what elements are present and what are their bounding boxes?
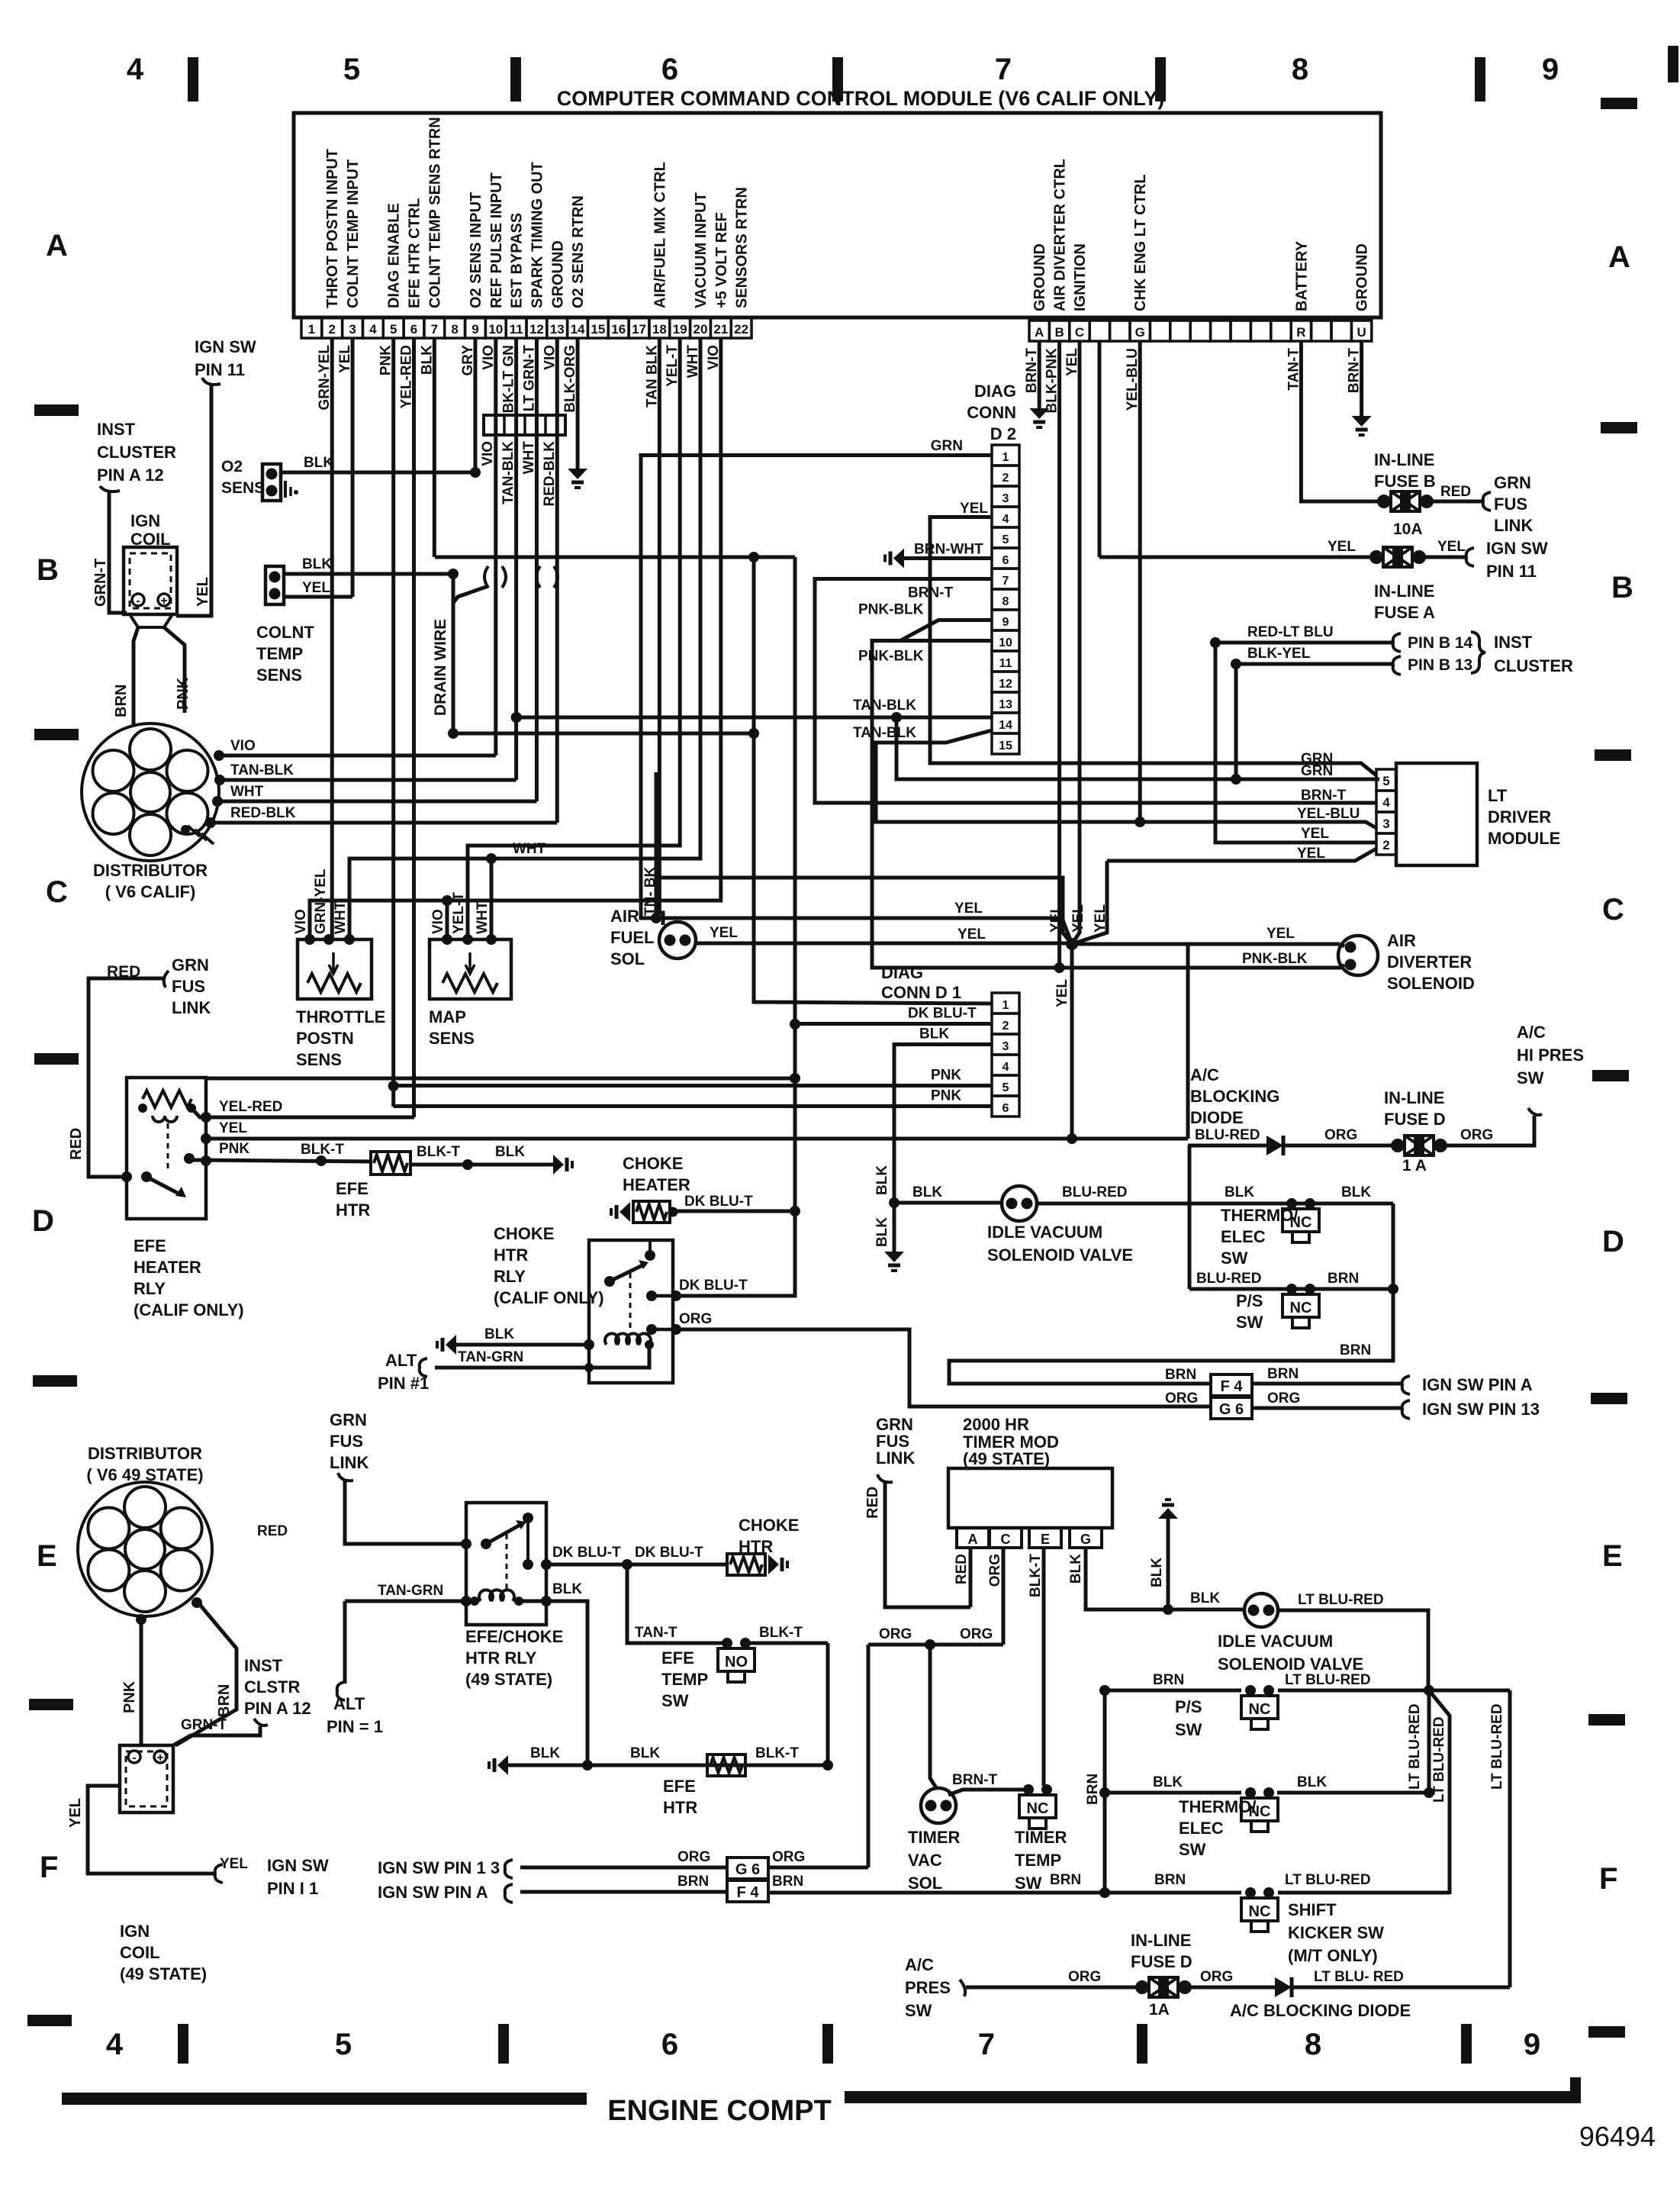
G6 box bottom: [727, 1858, 768, 1879]
wire pin2 GRN-YEL: [330, 338, 334, 939]
wire g6 bottom row: [505, 1860, 727, 1878]
wire thermo2 right: [1277, 1787, 1434, 1798]
svg-text:EFE: EFE: [661, 1648, 694, 1667]
svg-text:DIODE: DIODE: [1190, 1108, 1244, 1127]
svg-text:LT BLU-RED: LT BLU-RED: [1489, 1703, 1505, 1790]
wire f4 bottom row: [505, 1884, 727, 1903]
svg-text:DK BLU-T: DK BLU-T: [552, 1545, 621, 1561]
svg-text:BRN: BRN: [216, 1684, 233, 1717]
label IN-LINE FUSE D bottom: [1131, 1931, 1192, 1971]
svg-text:GROUND: GROUND: [1354, 243, 1371, 311]
svg-text:(49 STATE): (49 STATE): [963, 1449, 1050, 1468]
svg-text:DISTRIBUTOR: DISTRIBUTOR: [93, 861, 208, 880]
wire g6 right: [1252, 1400, 1410, 1419]
svg-text:C: C: [1001, 1532, 1011, 1547]
svg-text:6: 6: [1003, 554, 1009, 567]
label BRN f4 r: [1267, 1366, 1299, 1382]
O2 sensor pigtail: [285, 481, 298, 498]
label LT BLU-RED v2: [1431, 1716, 1447, 1803]
label BLK idle rot: [874, 1165, 890, 1195]
svg-text:SOLENOID VALVE: SOLENOID VALVE: [987, 1245, 1133, 1265]
svg-text:RLY: RLY: [494, 1267, 526, 1286]
label DISTRIBUTOR 49: [86, 1444, 203, 1484]
label BRN vert: [1085, 1774, 1101, 1805]
svg-text:1: 1: [1003, 451, 1009, 464]
label BRN-T d2: [908, 585, 953, 601]
label ALT PIN1 49: [327, 1694, 383, 1736]
wire ign sw pin11 YEL: [176, 378, 220, 616]
wire shift row: [900, 1887, 1241, 1898]
svg-text:BLK: BLK: [1153, 1774, 1183, 1790]
label TAN-GRN: [458, 1349, 523, 1365]
svg-text:19: 19: [673, 322, 687, 337]
wire pinU BRN-T: [1360, 341, 1363, 416]
svg-text:14: 14: [571, 322, 585, 337]
label AIR FUEL SOL: [610, 907, 654, 968]
F4 box: [1211, 1374, 1252, 1396]
wire ps row2: [1099, 1685, 1241, 1696]
svg-text:15: 15: [999, 739, 1012, 752]
svg-text:CHOKE: CHOKE: [494, 1224, 554, 1243]
label BLK 49a: [530, 1745, 560, 1761]
svg-text:YEL: YEL: [954, 901, 983, 917]
svg-text:GRN: GRN: [1301, 763, 1333, 779]
svg-text:RED: RED: [257, 1523, 288, 1539]
F4 box bottom: [727, 1880, 768, 1902]
svg-text:1: 1: [1003, 999, 1009, 1012]
svg-text:10: 10: [488, 322, 503, 337]
label BLK-T 2: [417, 1144, 460, 1160]
svg-text:SENSORS RTRN: SENSORS RTRN: [734, 187, 751, 308]
wire diode to v: [1292, 1986, 1510, 1990]
label BLK thermo l: [1225, 1184, 1254, 1200]
wire f4 right: [1252, 1376, 1410, 1394]
wire D1-6 PNK: [394, 1104, 992, 1108]
svg-text:SPARK TIMING OUT: SPARK TIMING OUT: [529, 162, 546, 308]
svg-text:YEL: YEL: [67, 1798, 84, 1828]
wire sol to right v: [1278, 1610, 1428, 1690]
svg-text:P/S: P/S: [1175, 1697, 1202, 1716]
distributor V6 CALIF: [82, 723, 219, 861]
svg-text:2: 2: [1003, 1020, 1009, 1033]
svg-text:8: 8: [1292, 53, 1308, 86]
svg-text:IGNITION: IGNITION: [1072, 243, 1089, 311]
label BLK timer g: [1190, 1590, 1220, 1606]
svg-text:MAP: MAP: [429, 1007, 466, 1026]
svg-text:RED-BLK: RED-BLK: [230, 805, 296, 821]
label BLK below: [874, 1217, 890, 1247]
label LT BLU-RED lower sol: [1298, 1592, 1384, 1608]
label BRN shift1: [1050, 1872, 1081, 1888]
svg-text:GRN: GRN: [172, 955, 209, 975]
svg-text:BRN: BRN: [1154, 1872, 1186, 1888]
svg-text:8: 8: [1305, 2028, 1321, 2061]
svg-text:BRN: BRN: [1340, 1342, 1371, 1358]
label O2 SENS: [221, 458, 265, 497]
timer vac sol: [921, 1788, 956, 1823]
svg-text:A: A: [1035, 325, 1044, 340]
svg-text:PIN B 14: PIN B 14: [1408, 634, 1473, 652]
thermo elec sw NC 2: [1241, 1787, 1278, 1832]
wire pin6 YEL-RED: [412, 338, 416, 1117]
wire v 1873: [1427, 1690, 1431, 1793]
label MAP SENS: [429, 1007, 475, 1048]
ECM letter function labels: [1031, 159, 1370, 311]
label IGN COIL: [130, 511, 171, 549]
svg-text:22: 22: [734, 322, 748, 337]
label YEL fuseA left: [1328, 539, 1356, 555]
svg-text:RED-LT BLU: RED-LT BLU: [1247, 624, 1334, 640]
svg-text:4: 4: [1003, 1061, 1009, 1074]
label TAN-BLK 13: [853, 698, 916, 714]
wire fuse A to ign sw: [1419, 548, 1474, 566]
svg-text:ORG: ORG: [879, 1626, 912, 1642]
svg-text:FUS: FUS: [1494, 495, 1527, 514]
timer mod cells: [957, 1528, 1102, 1548]
wire pin18 TAN BLK: [659, 338, 663, 925]
svg-text:PNK: PNK: [931, 1068, 961, 1084]
wire dist49 PNK: [136, 1614, 146, 1745]
svg-text:VIO: VIO: [480, 441, 496, 466]
label BLK d1: [919, 1026, 949, 1042]
wire ac pres to fuse: [960, 1980, 1142, 1996]
label RED fuseB: [1440, 484, 1471, 500]
svg-text:IDLE VACUUM: IDLE VACUUM: [1218, 1632, 1333, 1651]
label IGN SW PIN 13 b: [378, 1858, 500, 1877]
labels YEL verticals: [1048, 904, 1109, 933]
label GRN FUS LINK mid: [876, 1415, 915, 1468]
label GRN d2: [931, 438, 963, 454]
label EFE HTR: [336, 1179, 370, 1220]
label RED efe: [107, 963, 140, 981]
svg-text:AIR: AIR: [610, 907, 639, 926]
svg-text:7: 7: [431, 322, 438, 337]
label PIN B 14: [1408, 634, 1473, 652]
LT driver module box: [1396, 763, 1477, 865]
label BRN-WHT: [914, 542, 983, 558]
label AC PRES SW: [905, 1955, 951, 2020]
svg-text:5: 5: [1382, 774, 1389, 788]
air diverter solenoid: [1338, 936, 1378, 975]
svg-text:PIN A 12: PIN A 12: [97, 466, 164, 485]
wire fuse to diode: [1185, 1986, 1275, 1990]
svg-text:O2 SENS RTRN: O2 SENS RTRN: [570, 195, 587, 308]
svg-text:1A: 1A: [1149, 2001, 1170, 2019]
label IGN SW PIN A: [1422, 1375, 1533, 1394]
label BLK efehtr: [495, 1144, 525, 1160]
wire g6b right: [768, 1866, 868, 1870]
ground D2-6: [885, 549, 904, 569]
label GRN FUS LINK 49: [330, 1410, 369, 1472]
wire pinG YEL-BLU: [1134, 341, 1145, 827]
choke htr resistor 49: [727, 1554, 787, 1575]
svg-text:GRN: GRN: [330, 1410, 367, 1429]
svg-text:KICKER SW: KICKER SW: [1288, 1923, 1384, 1942]
svg-text:SENS: SENS: [429, 1029, 475, 1048]
svg-text:FUSE D: FUSE D: [1384, 1110, 1446, 1129]
svg-text:COLNT TEMP INPUT: COLNT TEMP INPUT: [345, 159, 362, 308]
wire RED-LT BLU drop YEL: [1215, 643, 1376, 843]
label BLK-T 1: [301, 1142, 344, 1158]
label ORG rly: [679, 1311, 712, 1327]
svg-text:(M/T ONLY): (M/T ONLY): [1288, 1946, 1378, 1965]
svg-text:BLK: BLK: [1190, 1590, 1220, 1606]
svg-text:VIO: VIO: [230, 738, 256, 754]
svg-text:11: 11: [999, 657, 1012, 670]
svg-text:-: -: [136, 594, 140, 607]
wire efe rly top: [206, 1073, 800, 1084]
wire blu-red diode row: [1188, 1144, 1398, 1148]
O2 sensor connector: [262, 464, 281, 501]
G6 box: [1211, 1397, 1252, 1419]
label DISTRIBUTOR V6 CALIF: [93, 861, 208, 901]
label BRN 49: [216, 1684, 233, 1717]
svg-text:9: 9: [471, 322, 478, 337]
label BLK 49coil: [552, 1581, 582, 1597]
efe choke dashed: [506, 1534, 508, 1591]
svg-text:GRN-T: GRN-T: [92, 559, 109, 607]
wire thermo row2: [1099, 1787, 1241, 1798]
wire coil BRN: [134, 627, 138, 727]
svg-text:B: B: [1054, 325, 1064, 340]
svg-text:(CALIF ONLY): (CALIF ONLY): [134, 1300, 244, 1319]
border right ticks: [1588, 98, 1637, 2038]
wire coil PNK: [164, 627, 185, 713]
svg-text:BRN-WHT: BRN-WHT: [914, 542, 983, 558]
svg-text:WHT: WHT: [333, 901, 349, 934]
svg-text:COMPUTER COMMAND CONTROL MO: COMPUTER COMMAND CONTROL MODULE (V6 CALI…: [557, 87, 1165, 110]
svg-text:4: 4: [369, 322, 377, 337]
svg-text:MODULE: MODULE: [1488, 829, 1560, 848]
svg-text:YEL-RED: YEL-RED: [219, 1099, 282, 1115]
svg-text:TIMER: TIMER: [1015, 1828, 1067, 1847]
label DK BLU-T rly: [679, 1278, 748, 1294]
label ENGINE COMPT: [607, 2095, 831, 2127]
svg-text:SENS: SENS: [256, 665, 302, 685]
wire shift right: [1278, 1891, 1450, 1895]
svg-text:INST: INST: [97, 420, 136, 439]
wire YEL diag cell2: [1107, 849, 1376, 861]
wire efechoke BLK coil: [519, 1596, 587, 1765]
label PS SW 2: [1175, 1697, 1202, 1739]
label PNK d1-6: [931, 1088, 961, 1104]
svg-text:8: 8: [1003, 595, 1009, 608]
efe rly coil: [138, 1091, 196, 1122]
in-line fuse D bottom: [1135, 1977, 1192, 1997]
label COLNT TEMP SENS: [256, 623, 314, 685]
svg-text:4: 4: [1003, 513, 1009, 526]
label 10A: [1393, 520, 1423, 538]
wire grn fus 49 RED: [338, 1473, 466, 1544]
ground efe htr: [553, 1155, 572, 1174]
label DK BLU-T d1: [908, 1006, 977, 1022]
svg-text:EST BYPASS: EST BYPASS: [509, 213, 526, 308]
svg-text:HTR: HTR: [336, 1200, 370, 1220]
svg-text:INST: INST: [1494, 633, 1533, 652]
labels timer wires: [954, 1554, 1084, 1597]
label BRN ps2: [1153, 1672, 1184, 1688]
label ORG row l: [879, 1626, 912, 1642]
svg-text:TEMP: TEMP: [661, 1670, 708, 1689]
EFE heater rly box: [127, 1078, 206, 1219]
wire pin20 WHT: [349, 338, 700, 939]
svg-text:IN-LINE: IN-LINE: [1374, 582, 1434, 601]
svg-text:PNK: PNK: [931, 1088, 961, 1104]
svg-text:CHK ENG LT CTRL: CHK ENG LT CTRL: [1132, 174, 1149, 311]
svg-text:HTR: HTR: [739, 1537, 773, 1556]
svg-text:HI PRES: HI PRES: [1517, 1046, 1584, 1065]
label YEL-BLU lt: [1297, 806, 1360, 822]
wire brn loop: [949, 1289, 1393, 1384]
svg-text:YEL: YEL: [1070, 904, 1086, 933]
label ALT PIN 1: [378, 1351, 429, 1393]
svg-text:WHT: WHT: [475, 901, 491, 934]
svg-text:B: B: [1611, 571, 1633, 604]
label ORG acd r: [1200, 1969, 1233, 1985]
label DIAG CONN D2: [967, 382, 1016, 443]
svg-text:BLU-RED: BLU-RED: [1195, 1127, 1260, 1143]
label TAN-BLK dist: [230, 762, 294, 778]
label 1A upper: [1402, 1157, 1427, 1174]
svg-text:LINK: LINK: [330, 1453, 369, 1472]
svg-text:SENS: SENS: [221, 479, 265, 497]
svg-text:DK BLU-T: DK BLU-T: [679, 1278, 748, 1294]
label IGN COIL 49: [120, 1922, 207, 1983]
svg-text:BLK: BLK: [495, 1144, 525, 1160]
wire O2 sens BLK: [281, 471, 475, 475]
svg-text:3: 3: [349, 322, 356, 337]
svg-text:FUS: FUS: [172, 977, 205, 996]
wire thermo row: [1189, 1202, 1393, 1206]
svg-text:SW: SW: [1015, 1874, 1042, 1893]
label LT BLU-RED shift: [1285, 1872, 1371, 1888]
border top ruler ticks: [188, 57, 1485, 101]
svg-text:SW: SW: [1179, 1840, 1206, 1859]
svg-text:2000 HR: 2000 HR: [963, 1415, 1029, 1434]
label YEL lt2: [1297, 846, 1325, 862]
svg-text:SOL: SOL: [610, 949, 645, 968]
svg-text:3: 3: [1382, 817, 1389, 831]
svg-text:WHT: WHT: [230, 784, 264, 800]
svg-text:LT BLU- RED: LT BLU- RED: [1314, 1969, 1404, 1985]
choke heater resistor: [633, 1201, 678, 1223]
label BLK thermo2 r: [1297, 1774, 1327, 1790]
svg-text:ORG: ORG: [1068, 1969, 1101, 1985]
svg-text:BLK: BLK: [484, 1326, 514, 1342]
svg-text:IGN: IGN: [120, 1922, 150, 1941]
svg-text:BLK: BLK: [304, 455, 333, 471]
svg-text:4: 4: [106, 2028, 124, 2061]
svg-text:SW: SW: [661, 1691, 689, 1710]
svg-text:THERMO/: THERMO/: [1221, 1206, 1298, 1225]
in-line fuse D upper: [1391, 1136, 1447, 1155]
label BLK thermo2 l: [1153, 1774, 1183, 1790]
svg-text:E: E: [37, 1539, 57, 1573]
label PNK efe: [219, 1141, 249, 1157]
wire dist VIO: [214, 750, 496, 761]
label BRN f4b l: [677, 1874, 709, 1890]
svg-text:LT BLU-RED: LT BLU-RED: [1285, 1872, 1371, 1888]
svg-text:ORG: ORG: [677, 1849, 710, 1865]
svg-text:4: 4: [1382, 795, 1390, 810]
svg-text:IDLE VACUUM: IDLE VACUUM: [987, 1223, 1102, 1242]
svg-text:IN-LINE: IN-LINE: [1384, 1088, 1444, 1107]
label YEL colnt: [302, 580, 330, 596]
svg-text:F 4: F 4: [737, 1884, 760, 1901]
label BLU-RED upper: [1062, 1184, 1128, 1200]
svg-text:+5 VOLT REF: +5 VOLT REF: [713, 212, 730, 308]
label BLK thermo r: [1341, 1184, 1371, 1200]
label LT BLU-RED ps2: [1285, 1672, 1371, 1688]
svg-text:YEL: YEL: [1301, 826, 1329, 842]
wire pin7 BLK: [433, 338, 436, 557]
label PNK: [175, 677, 191, 710]
wire dist49 BRN: [175, 1597, 237, 1745]
label LT DRIVER MODULE: [1488, 786, 1560, 848]
label BLU-RED ps: [1196, 1271, 1262, 1287]
svg-text:O2: O2: [221, 458, 243, 475]
ground timer: [1158, 1500, 1178, 1609]
wire RED-LT BLU: [1210, 633, 1401, 652]
svg-text:ORG: ORG: [1200, 1969, 1233, 1985]
timer temp sw NC: [1019, 1784, 1056, 1829]
svg-text:5: 5: [1003, 533, 1009, 546]
wire pin12 LT GRN-T: [535, 338, 539, 801]
svg-text:FUSE B: FUSE B: [1374, 472, 1436, 491]
label BLK o2: [304, 455, 333, 471]
svg-text:5: 5: [390, 322, 397, 337]
label IGN SW PIN A b: [378, 1883, 488, 1902]
svg-text:BLK-T: BLK-T: [417, 1144, 460, 1160]
wire D2-14 TAN-BLK: [511, 712, 992, 723]
ECM pin function labels: [324, 117, 750, 308]
label THERMO ELEC SW 2: [1179, 1797, 1256, 1859]
svg-text:BLK: BLK: [630, 1745, 660, 1761]
svg-text:GROUND: GROUND: [1031, 243, 1048, 311]
map sens resistor: [443, 952, 497, 992]
svg-text:TAN-BLK: TAN-BLK: [853, 698, 916, 714]
svg-text:SW: SW: [1236, 1313, 1263, 1332]
wire dist WHT: [212, 796, 536, 807]
svg-text:BRN: BRN: [1153, 1672, 1184, 1688]
label DK BLU-T 49b: [635, 1545, 703, 1561]
svg-text:E: E: [1041, 1532, 1050, 1547]
label IGN SW PIN 13: [1422, 1400, 1540, 1419]
label GRN lt1: [1301, 751, 1333, 767]
label PNK-BLK divert: [1242, 951, 1308, 967]
wire pin5 PNK: [388, 338, 399, 1107]
svg-text:18: 18: [652, 322, 667, 337]
svg-text:HEATER: HEATER: [623, 1175, 690, 1194]
svg-text:BLK: BLK: [874, 1165, 890, 1195]
svg-text:NO: NO: [725, 1654, 748, 1671]
inline connector 4 cells: [484, 415, 565, 435]
svg-text:(49 STATE): (49 STATE): [465, 1670, 552, 1689]
label LT BLU-RED v1: [1407, 1703, 1423, 1790]
AC blocking diode bottom: [1275, 1977, 1292, 1997]
shield symbols: [484, 566, 558, 588]
label GRN lt2: [1301, 763, 1333, 779]
svg-text:GRN: GRN: [931, 438, 963, 454]
svg-text:O2 SENS INPUT: O2 SENS INPUT: [468, 192, 484, 308]
svg-text:LT BLU-RED: LT BLU-RED: [1407, 1703, 1423, 1790]
svg-text:EFE HTR CTRL: EFE HTR CTRL: [407, 198, 423, 308]
border bottom ruler numbers: [106, 2028, 1540, 2061]
svg-text:96494: 96494: [1579, 2121, 1656, 2152]
svg-text:TEMP: TEMP: [1015, 1851, 1061, 1870]
svg-text:YEL: YEL: [219, 1120, 247, 1136]
ground choke coil: [437, 1335, 456, 1355]
